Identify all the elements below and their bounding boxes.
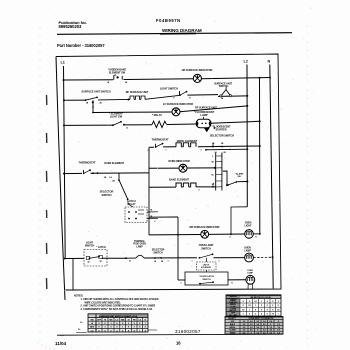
svg-text:OVEN: OVEN (247, 270, 253, 272)
svg-text:1: 1 (243, 314, 244, 316)
svg-text:11/04: 11/04 (55, 341, 66, 346)
svg-text:LAMP: LAMP (200, 113, 207, 117)
svg-text:* LATCH: * LATCH (96, 246, 105, 249)
svg-text:2-3: 2-3 (277, 330, 279, 332)
svg-text:BROIL ELEMENT: BROIL ELEMENT (177, 139, 198, 143)
svg-text:STARTER: STARTER (216, 128, 227, 131)
svg-text:1-4: 1-4 (277, 332, 279, 335)
svg-text:- - --: - - -- (60, 335, 64, 337)
svg-text:WM: WM (121, 319, 125, 321)
svg-text:SWITCH: SWITCH (85, 245, 95, 248)
svg-text:1-4: 1-4 (263, 320, 265, 323)
svg-text:1-2: 1-2 (263, 330, 265, 332)
svg-text:SWITCH: SWITCH (202, 279, 211, 281)
svg-text:N: N (268, 60, 271, 64)
svg-text:1-4: 1-4 (250, 326, 252, 329)
svg-text:THERMOSTAT: THERMOSTAT (78, 161, 96, 165)
svg-text:N -: N - (78, 329, 81, 331)
svg-text:5-6: 5-6 (269, 321, 271, 323)
svg-text:2: 2 (116, 330, 117, 332)
svg-text:WIRING DIAGRAM: WIRING DIAGRAM (162, 28, 202, 33)
svg-text:1-2: 1-2 (269, 327, 271, 329)
svg-text:5-6: 5-6 (263, 324, 265, 326)
svg-text:THERMAL: THERMAL (134, 240, 146, 243)
svg-text:BAKE ELEMENT: BAKE ELEMENT (169, 178, 189, 182)
svg-text:SWITCH: SWITCH (201, 247, 211, 250)
svg-text:THERMOSTAT: THERMOSTAT (151, 137, 169, 141)
svg-text:SOLENOID: SOLENOID (201, 267, 212, 269)
svg-text:2-3: 2-3 (250, 324, 252, 326)
svg-text:SELECT: SELECT (228, 318, 236, 320)
svg-text:LIGHT SW: LIGHT SW (110, 115, 123, 119)
svg-text:NOTES:: NOTES: (74, 294, 83, 297)
svg-text:LIGHT SWITCH: LIGHT SWITCH (160, 86, 178, 90)
svg-text:MED: MED (90, 327, 95, 329)
svg-text:5-6: 5-6 (250, 330, 252, 332)
svg-text:RF SURFACE UNIT: RF SURFACE UNIT (126, 90, 149, 94)
svg-text:SW: SW (237, 176, 240, 178)
svg-text:HR SURFACE INDICATOR: HR SURFACE INDICATOR (182, 68, 213, 72)
svg-text:1-2: 1-2 (277, 324, 279, 326)
svg-text:1: 1 (192, 260, 193, 262)
svg-text:5995260203: 5995260203 (59, 24, 83, 29)
svg-text:SELECTOR SWITCH: SELECTOR SWITCH (210, 134, 234, 138)
svg-text:8: 8 (230, 149, 231, 151)
svg-text:* RELAY: * RELAY (152, 113, 162, 117)
svg-text:BAKE: BAKE (230, 323, 236, 326)
svg-text:1-4: 1-4 (243, 329, 245, 332)
svg-text:LAMP: LAMP (136, 245, 143, 248)
svg-text:316002057: 316002057 (175, 329, 201, 334)
svg-text:X2: X2 (242, 309, 244, 311)
svg-text:SWITCH: SWITCH (219, 85, 229, 88)
svg-text:16: 16 (176, 340, 181, 345)
svg-text:8: 8 (199, 190, 200, 192)
svg-text:L1-: L1- (80, 322, 83, 324)
svg-text:2: 2 (134, 327, 135, 329)
svg-text:X2: X2 (272, 314, 274, 316)
svg-text:3-4: 3-4 (263, 332, 265, 335)
svg-text:3. COMPONENTS WITH * DO NOT AP: 3. COMPONENTS WITH * DO NOT APPEAR ON AL… (81, 308, 153, 311)
svg-text:RF SURFACE UNIT: RF SURFACE UNIT (195, 107, 217, 110)
svg-text:SURFACE UNIT SWITCH: SURFACE UNIT SWITCH (81, 90, 110, 94)
svg-text:SWITCH: SWITCH (102, 193, 112, 197)
svg-text:3-4: 3-4 (250, 320, 252, 323)
svg-text:X2: X2 (277, 309, 279, 311)
svg-text:X2: X2 (254, 301, 256, 303)
svg-text:BROIL: BROIL (230, 327, 237, 329)
svg-text:* ALARM: * ALARM (235, 172, 244, 175)
svg-text:MD SURFACE INDICATOR: MD SURFACE INDICATOR (190, 226, 220, 229)
svg-text:Part Number - 316002057: Part Number - 316002057 (57, 43, 105, 48)
svg-text:5-6: 5-6 (243, 333, 245, 335)
svg-text:1: 1 (249, 309, 250, 311)
svg-text:ELEMENT SW: ELEMENT SW (109, 71, 126, 74)
svg-text:OVEN SWITCH CONTACTS: OVEN SWITCH CONTACTS (249, 317, 274, 320)
svg-text:2-3: 2-3 (243, 327, 245, 329)
svg-text:1-2: 1-2 (256, 333, 258, 335)
svg-text:F04B957N: F04B957N (156, 18, 181, 23)
svg-text:2: 2 (104, 327, 105, 329)
svg-text:BK BR TM CL L1 L2 N: BK BR TM CL L1 L2 N (251, 297, 271, 299)
svg-text:FUSE OVEN: FUSE OVEN (133, 244, 146, 246)
svg-text:1-2: 1-2 (243, 321, 245, 323)
svg-text:1: 1 (166, 150, 167, 152)
svg-text:2: 2 (219, 260, 220, 262)
svg-text:3-4: 3-4 (243, 323, 245, 326)
svg-text:OVEN INDICATOR: OVEN INDICATOR (168, 159, 190, 163)
svg-text:L2: L2 (244, 60, 248, 64)
svg-text:3-4: 3-4 (277, 326, 279, 329)
svg-text:RELAY: RELAY (128, 203, 136, 206)
svg-text:5-6: 5-6 (256, 327, 258, 329)
svg-text:3-4: 3-4 (269, 329, 271, 332)
svg-text:2: 2 (128, 323, 129, 325)
svg-text:CLEAN: CLEAN (229, 329, 236, 332)
svg-text:TIMED: TIMED (230, 333, 236, 335)
svg-text:* DOOR LATCH: * DOOR LATCH (199, 275, 215, 278)
svg-text:1: 1 (255, 305, 256, 307)
svg-text:2-3: 2-3 (269, 333, 271, 335)
svg-text:LATCH: LATCH (203, 263, 210, 266)
svg-text:SW: SW (90, 319, 93, 321)
svg-text:2-3: 2-3 (256, 321, 258, 323)
svg-text:LAMP: LAMP (244, 249, 251, 252)
svg-text:LF SURFACE INDICATOR: LF SURFACE INDICATOR (163, 102, 193, 106)
svg-text:L1: L1 (61, 61, 65, 65)
svg-text:1: 1 (278, 314, 279, 316)
svg-text:3: 3 (168, 261, 169, 263)
svg-text:LIGHT: LIGHT (245, 225, 253, 228)
svg-text:OVEN ELEMENT: OVEN ELEMENT (104, 161, 124, 165)
svg-text:LAMP: LAMP (247, 272, 253, 275)
svg-text:X2: X2 (248, 305, 250, 307)
svg-text:SWITCH: SWITCH (153, 251, 162, 254)
svg-text:2: 2 (201, 149, 202, 151)
svg-text:1: 1 (261, 301, 262, 303)
svg-text:8: 8 (230, 237, 231, 239)
svg-text:1-4: 1-4 (256, 323, 258, 326)
